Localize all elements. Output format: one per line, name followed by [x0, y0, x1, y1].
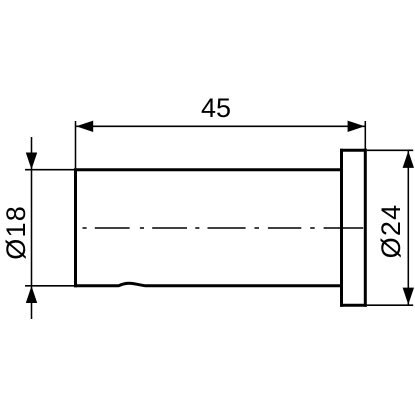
svg-text:45: 45 — [201, 93, 231, 123]
svg-text:Ø18: Ø18 — [1, 205, 31, 260]
svg-text:Ø24: Ø24 — [376, 204, 406, 259]
